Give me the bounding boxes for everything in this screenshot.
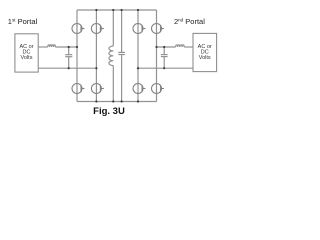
svg-text:1st Portal: 1st Portal	[8, 17, 38, 26]
svg-text:Fig. 3U: Fig. 3U	[93, 106, 125, 117]
svg-text:Volts: Volts	[199, 55, 211, 61]
svg-text:2nd Portal: 2nd Portal	[174, 17, 205, 26]
svg-text:Volts: Volts	[21, 55, 33, 61]
